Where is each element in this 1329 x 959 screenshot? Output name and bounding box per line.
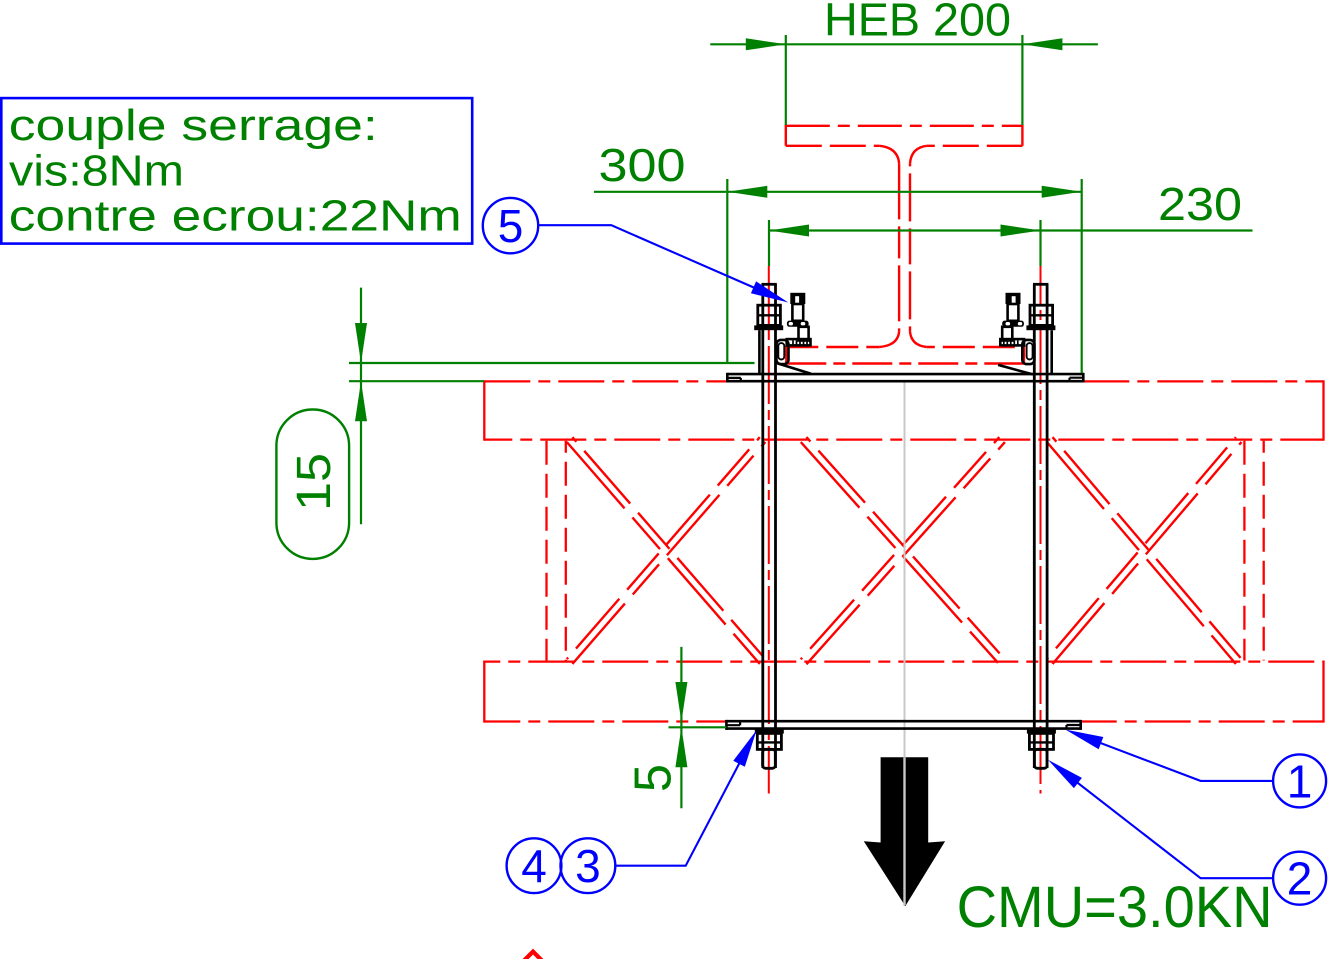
dim 300 left extension bbox=[726, 179, 728, 363]
right clamp screw washer hole right bbox=[1018, 322, 1022, 325]
left threaded rod line right bbox=[774, 284, 777, 768]
left bottom nut divider bbox=[757, 741, 781, 743]
svg-text:vis:8Nm: vis:8Nm bbox=[9, 146, 184, 195]
truss diagonal X1 up-right line 1 bbox=[572, 442, 765, 664]
left clamp screw head slot bbox=[795, 296, 799, 304]
dim 5 bottom arrowhead bbox=[675, 727, 687, 767]
red diamond symbol bottom bbox=[513, 952, 554, 959]
HEB200 web right line bbox=[909, 163, 911, 331]
balloon circle 2 bbox=[1273, 852, 1326, 905]
right bottom rod end bbox=[1034, 749, 1047, 768]
HEB200 bottom flange top edge right part bbox=[927, 346, 1024, 348]
svg-text:couple serrage:: couple serrage: bbox=[9, 101, 378, 150]
dim 5 top arrowhead bbox=[675, 682, 687, 722]
HEB200 top flange left edge bbox=[785, 125, 787, 146]
left jaw nose slot bbox=[778, 343, 784, 359]
truss left vertical member (hidden) line 1 bbox=[545, 441, 547, 661]
truss diagonal X3 up-right line 2 bbox=[1047, 437, 1236, 659]
dim 5 reference tick bbox=[669, 726, 727, 728]
HEB200 top flange bottom edge left part bbox=[786, 145, 880, 147]
dim 300 left arrowhead bbox=[727, 186, 767, 198]
left clamp screw head bbox=[790, 293, 805, 304]
right clamp screw washer hole left bbox=[1006, 322, 1011, 325]
svg-text:300: 300 bbox=[599, 139, 686, 191]
HEB200 bottom flange right edge bbox=[1023, 346, 1025, 364]
truss top chord top edge bbox=[484, 380, 1323, 382]
left top nut divider bbox=[758, 314, 781, 316]
balloon circle 3 bbox=[561, 838, 616, 893]
truss diagonal X2 up-right line 2 bbox=[801, 437, 1000, 659]
svg-text:15: 15 bbox=[288, 453, 341, 511]
dim HEB200 left extension bbox=[785, 35, 787, 125]
right top nut divider bbox=[1030, 314, 1053, 316]
left bottom nut pair outline bbox=[757, 733, 781, 749]
load arrow solid black bbox=[864, 757, 945, 906]
HEB200 web fillet bottom-right bbox=[910, 332, 927, 347]
svg-text:3: 3 bbox=[575, 840, 601, 892]
leader line balloon 5 bbox=[538, 225, 780, 299]
right threaded rod top cap bbox=[1033, 283, 1048, 286]
bottom plate right end tab bbox=[1067, 725, 1081, 729]
leader 4 3 arrowhead bbox=[733, 730, 756, 767]
HEB200 top flange top edge bbox=[786, 125, 1023, 127]
dim 15 upper reference line bbox=[349, 362, 755, 364]
right bottom nut divider bbox=[1029, 741, 1053, 743]
right threaded rod line left bbox=[1033, 284, 1036, 768]
dim HEB200 right extension bbox=[1021, 35, 1023, 125]
truss diagonal X3 up-right line 1 bbox=[1053, 442, 1242, 664]
truss top chord left end cap bbox=[483, 380, 485, 440]
right bottom washer bar bbox=[1027, 729, 1056, 734]
svg-text:5: 5 bbox=[625, 764, 683, 792]
bottom plate left end edge bbox=[725, 720, 728, 730]
right clamp screw head bbox=[1006, 293, 1021, 304]
svg-text:230: 230 bbox=[1158, 178, 1242, 230]
truss bottom chord left end cap bbox=[483, 661, 485, 723]
note box couple serrage bbox=[1, 98, 472, 244]
svg-text:1: 1 bbox=[1287, 755, 1313, 807]
dim HEB200 line bbox=[710, 43, 1098, 45]
left bolt red centerline bbox=[768, 266, 770, 794]
leader line balloon 1 bbox=[1075, 733, 1273, 781]
leader line balloons 4 3 bbox=[615, 741, 751, 866]
left bottom washer bar bbox=[755, 729, 784, 734]
bottom plate bottom edge bbox=[726, 727, 1080, 730]
balloon circle 4 bbox=[507, 838, 562, 893]
truss diagonal X1 down-right line 1 bbox=[567, 442, 760, 664]
dim 300 right arrowhead bbox=[1042, 186, 1082, 198]
grey axis overlay on arrow bbox=[903, 757, 905, 905]
svg-text:2: 2 bbox=[1287, 853, 1313, 905]
dim 15 top arrowhead bbox=[355, 323, 367, 363]
left clamp screw washer hole right bbox=[801, 322, 806, 325]
left clamp screw thread ticks bbox=[793, 341, 807, 345]
truss left vertical member (hidden) line 2 bbox=[565, 441, 567, 661]
dim 300 line bbox=[594, 191, 1082, 193]
truss bottom chord top edge bbox=[484, 660, 1323, 662]
left top nut pair outline bbox=[758, 305, 781, 325]
dim HEB200 right arrowhead bbox=[1022, 38, 1062, 50]
HEB200 top flange bottom edge right part bbox=[927, 145, 1023, 147]
truss diagonal X2 up-right line 1 bbox=[806, 442, 1005, 664]
right bolt red centerline bbox=[1040, 266, 1042, 794]
HEB200 bottom flange left edge bbox=[785, 346, 787, 364]
left bottom rod end bbox=[763, 749, 776, 768]
right threaded rod line right bbox=[1046, 284, 1049, 768]
left jaw arm bbox=[787, 339, 811, 345]
right top nut pair outline bbox=[1030, 305, 1053, 325]
truss top chord right end cap bbox=[1322, 380, 1324, 440]
svg-text:CMU=3.0KN: CMU=3.0KN bbox=[957, 875, 1273, 940]
left threaded rod top cap bbox=[762, 283, 777, 286]
left clamp screw block bbox=[799, 327, 809, 341]
svg-text:contre ecrou:22Nm: contre ecrou:22Nm bbox=[9, 192, 462, 241]
top plate bottom edge bbox=[727, 380, 1083, 383]
dim 15 bottom arrowhead bbox=[355, 381, 367, 421]
truss diagonal X1 up-right line 2 bbox=[567, 437, 760, 659]
right jaw nose bbox=[1022, 340, 1034, 364]
truss bottom chord bottom edge bbox=[484, 720, 1323, 722]
truss diagonal X1 down-right line 2 bbox=[572, 437, 765, 659]
dim HEB200 left arrowhead bbox=[746, 38, 786, 50]
truss diagonal X3 down-right line 2 bbox=[1053, 437, 1242, 659]
right clamp screw block bbox=[1002, 327, 1012, 341]
left top washer bar bbox=[754, 325, 783, 330]
truss diagonal X2 down-right line 1 bbox=[801, 442, 1000, 664]
balloon circle 1 bbox=[1273, 754, 1326, 807]
dim 300 right extension bbox=[1081, 179, 1083, 373]
leader line balloon 2 bbox=[1056, 766, 1273, 878]
dim 230 right extension bbox=[1039, 220, 1041, 266]
dim 15 vertical line bbox=[360, 288, 362, 525]
bottom plate top edge bbox=[726, 720, 1080, 723]
bottom plate left end tab bbox=[726, 721, 740, 725]
left clamp screw washer bbox=[787, 321, 809, 327]
leader 5 arrowhead bbox=[751, 281, 788, 302]
truss bottom chord right end cap bbox=[1322, 661, 1324, 723]
dim 5 vertical line bbox=[680, 647, 682, 808]
truss diagonal X3 down-right line 1 bbox=[1047, 442, 1236, 664]
bottom plate right end edge bbox=[1079, 720, 1082, 730]
truss right vertical member (hidden) line 2 bbox=[1263, 441, 1265, 661]
right jaw nose slot bbox=[1027, 343, 1033, 359]
top plate right end edge bbox=[1082, 373, 1085, 383]
right top washer bar bbox=[1026, 325, 1055, 330]
grey center axis line bbox=[904, 382, 906, 906]
left clamp screw washer hole left bbox=[789, 322, 793, 325]
top plate left end tab bbox=[727, 378, 741, 381]
dim 230 line bbox=[769, 229, 1253, 231]
right bottom nut pair outline bbox=[1029, 733, 1053, 749]
truss right vertical member (hidden) line 1 bbox=[1243, 441, 1245, 661]
left gusset line bbox=[777, 363, 811, 374]
svg-text:HEB 200: HEB 200 bbox=[824, 0, 1011, 46]
top plate right end tab bbox=[1070, 378, 1084, 382]
HEB200 web fillet bottom-left bbox=[879, 332, 899, 347]
left jaw nose bbox=[776, 340, 788, 364]
leader 1 arrowhead bbox=[1066, 730, 1104, 750]
right clamp body outer edge bbox=[1050, 330, 1053, 374]
dim 230 left arrowhead bbox=[769, 225, 809, 237]
right gusset line bbox=[998, 365, 1033, 375]
left clamp screw neck bbox=[792, 304, 803, 321]
leader 2 arrowhead bbox=[1048, 760, 1082, 788]
truss top chord bottom edge bbox=[484, 438, 1323, 440]
right clamp screw washer bbox=[1002, 321, 1024, 327]
left threaded rod line left bbox=[761, 284, 764, 768]
dim 15 lower reference line bbox=[349, 380, 484, 382]
HEB200 web left line bbox=[898, 163, 900, 331]
HEB200 top flange right edge bbox=[1021, 125, 1023, 146]
label 15 stadium outline bbox=[276, 410, 349, 559]
right clamp screw head slot bbox=[1012, 296, 1016, 304]
HEB200 bottom flange top edge left part bbox=[786, 346, 879, 348]
svg-text:5: 5 bbox=[498, 200, 524, 252]
right clamp screw neck bbox=[1008, 304, 1019, 321]
HEB200 web fillet top-right bbox=[910, 146, 927, 164]
balloon circle 5 bbox=[483, 198, 538, 253]
truss diagonal X2 down-right line 2 bbox=[806, 437, 1005, 659]
top plate left end edge bbox=[726, 373, 729, 383]
HEB200 web fillet top-left bbox=[879, 146, 899, 164]
svg-text:4: 4 bbox=[521, 840, 547, 892]
dim 230 left extension bbox=[768, 220, 770, 266]
left clamp body outer edge bbox=[758, 330, 761, 374]
right jaw arm bbox=[1000, 339, 1024, 345]
top plate top edge bbox=[727, 373, 1083, 376]
HEB200 bottom flange bottom edge bbox=[786, 362, 1024, 364]
dim 230 right arrowhead bbox=[1001, 225, 1041, 237]
right clamp screw thread ticks bbox=[1004, 341, 1018, 345]
